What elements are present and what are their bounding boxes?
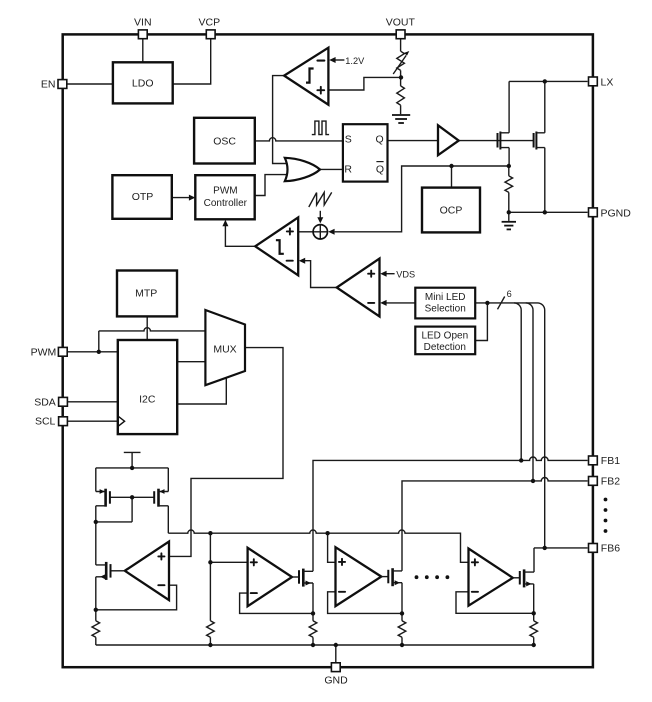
svg-text:FB1: FB1 bbox=[601, 455, 620, 467]
svg-text:FB2: FB2 bbox=[601, 476, 620, 488]
svg-text:MUX: MUX bbox=[213, 343, 236, 355]
svg-text:Q: Q bbox=[376, 164, 384, 176]
svg-text:FB6: FB6 bbox=[601, 543, 620, 555]
svg-text:OTP: OTP bbox=[132, 191, 154, 203]
svg-text:Mini LED: Mini LED bbox=[425, 292, 466, 303]
svg-text:Q: Q bbox=[376, 134, 384, 146]
svg-text:PWM: PWM bbox=[213, 186, 237, 197]
svg-text:VCP: VCP bbox=[199, 17, 221, 29]
svg-text:SCL: SCL bbox=[35, 416, 56, 428]
svg-text:EN: EN bbox=[41, 78, 56, 90]
svg-text:I2C: I2C bbox=[139, 393, 156, 405]
svg-text:LED Open: LED Open bbox=[421, 331, 468, 342]
svg-text:VOUT: VOUT bbox=[386, 17, 416, 29]
svg-text:LDO: LDO bbox=[132, 77, 154, 89]
svg-text:1.2V: 1.2V bbox=[345, 56, 365, 66]
svg-text:Detection: Detection bbox=[424, 342, 466, 353]
svg-text:SDA: SDA bbox=[34, 397, 56, 409]
svg-text:VIN: VIN bbox=[134, 17, 152, 29]
svg-text:Selection: Selection bbox=[425, 304, 466, 315]
svg-text:GND: GND bbox=[324, 674, 348, 686]
svg-text:R: R bbox=[344, 163, 352, 175]
svg-text:MTP: MTP bbox=[135, 288, 157, 300]
svg-text:PWM: PWM bbox=[31, 346, 57, 358]
svg-text:OSC: OSC bbox=[213, 136, 236, 148]
svg-text:OCP: OCP bbox=[440, 205, 463, 217]
svg-text:6: 6 bbox=[507, 289, 512, 299]
svg-text:Controller: Controller bbox=[204, 198, 248, 209]
svg-text:S: S bbox=[345, 134, 352, 146]
svg-text:VDS: VDS bbox=[396, 270, 415, 280]
svg-text:PGND: PGND bbox=[601, 207, 632, 219]
svg-text:LX: LX bbox=[601, 76, 614, 88]
